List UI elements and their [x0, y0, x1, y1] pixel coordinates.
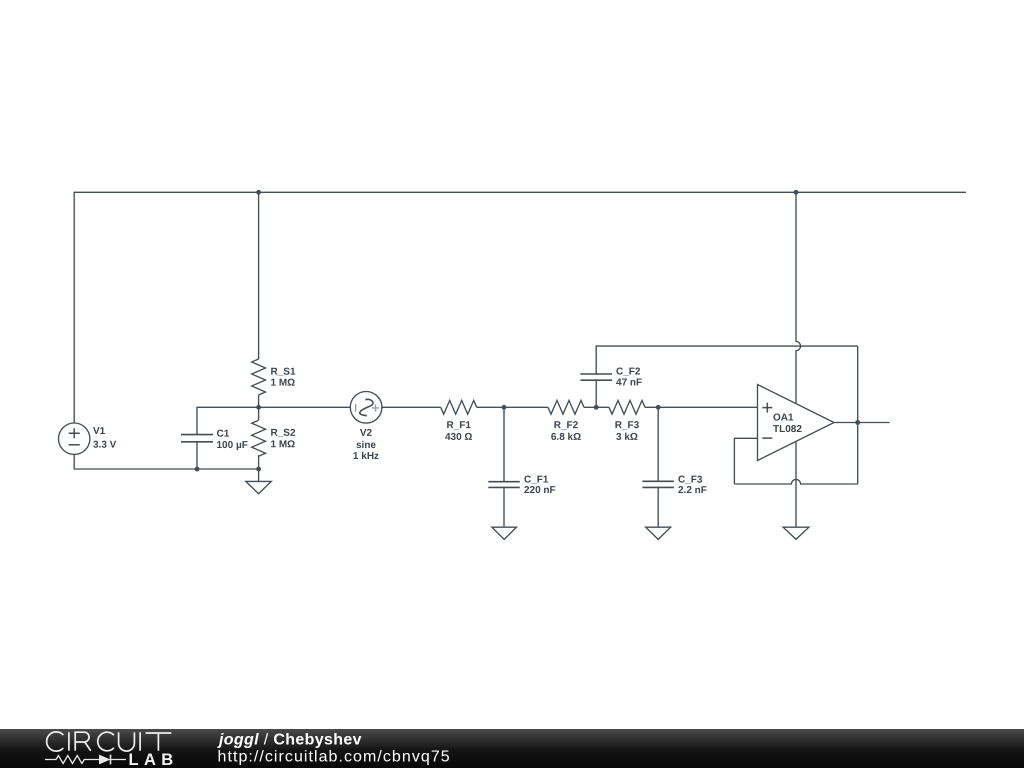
capacitor C_F1 — [488, 482, 520, 488]
wire feedback right vertical — [857, 346, 859, 484]
svg-text:3.3 V: 3.3 V — [93, 440, 117, 451]
capacitor C1 — [181, 435, 213, 442]
svg-text:joggl / Chebyshev: joggl / Chebyshev — [217, 732, 362, 749]
wire V2 to R_F1 — [382, 406, 441, 408]
wire R_F1 to C_F1 node — [477, 406, 548, 408]
V2 sine squiggle — [360, 399, 373, 415]
wire C1 top connector — [197, 407, 259, 434]
wire junction to V2 — [259, 406, 351, 408]
svg-text:TL082: TL082 — [773, 424, 802, 435]
node dot output — [855, 420, 860, 425]
wire output — [834, 422, 890, 424]
svg-text:1 MΩ: 1 MΩ — [270, 439, 295, 450]
op-amp plus input marker — [762, 403, 772, 413]
capacitor C_F2 — [580, 374, 612, 380]
svg-text:1 kHz: 1 kHz — [353, 451, 379, 462]
svg-text:430 Ω: 430 Ω — [445, 432, 472, 443]
voltage source V1 circle — [58, 423, 89, 454]
V1 plus sign — [69, 428, 80, 438]
svg-text:http://circuitlab.com/cbnvq75: http://circuitlab.com/cbnvq75 — [218, 748, 451, 765]
svg-text:OA1: OA1 — [773, 412, 794, 423]
svg-text:R_S2: R_S2 — [270, 428, 295, 439]
wire C_F2 lower lead — [595, 380, 597, 407]
V2 plus marker (gray) — [372, 404, 379, 411]
logo CIRCUIT text — [47, 732, 172, 751]
V2 minus marker (gray) — [355, 404, 357, 412]
resistor R_S1 — [252, 359, 266, 395]
op-amp minus input marker — [762, 437, 772, 439]
logo diode bar — [110, 755, 112, 765]
svg-text:3 kΩ: 3 kΩ — [616, 432, 638, 443]
ground for C_F3 — [646, 527, 671, 539]
svg-text:R_F3: R_F3 — [615, 420, 640, 431]
wire op-amp V- power — [795, 441, 797, 527]
wire feedback bottom with hop — [734, 479, 857, 484]
resistor R_F1 — [441, 400, 477, 414]
wire op-amp V+ power with hop — [796, 192, 801, 403]
resistor R_F2 — [548, 400, 584, 414]
wire C_F1 stem — [503, 487, 505, 527]
logo resistor-diode art — [45, 756, 126, 764]
svg-text:LAB: LAB — [129, 751, 179, 768]
node dot C_F3 — [656, 405, 661, 410]
node dot top rail / R_S1 — [256, 190, 261, 195]
V1 minus sign — [69, 444, 80, 446]
wire C1 bottom — [196, 442, 198, 469]
capacitor C_F3 — [642, 481, 674, 487]
wire C_F1 top lead — [503, 407, 505, 481]
wire R_F2 to C_F2 node — [584, 406, 609, 408]
node dot C1 bottom — [195, 467, 200, 472]
svg-text:47 nF: 47 nF — [616, 377, 642, 388]
svg-text:220 nF: 220 nF — [524, 485, 556, 496]
svg-text:C_F3: C_F3 — [678, 475, 703, 486]
node dot R_S2 bottom — [256, 467, 261, 472]
op-amp U1 triangle — [758, 385, 835, 461]
wire C_F2 upper lead and feedback top — [596, 346, 858, 374]
svg-text:C1: C1 — [216, 429, 229, 440]
voltage source V2 circle — [350, 392, 382, 424]
svg-text:R_S1: R_S1 — [271, 367, 296, 378]
wire op-amp negative input — [734, 438, 757, 484]
wire C_F3 top lead — [657, 407, 659, 481]
wire R_F3 to op-amp — [645, 406, 758, 408]
node dot C_F1 — [502, 405, 507, 410]
ground for op-amp — [783, 527, 809, 539]
ground for R_S2 — [246, 481, 271, 493]
svg-text:R_F1: R_F1 — [446, 420, 471, 431]
svg-text:sine: sine — [356, 440, 376, 451]
resistor R_F3 — [609, 400, 645, 414]
svg-text:V1: V1 — [93, 426, 106, 437]
svg-text:100 µF: 100 µF — [216, 440, 247, 451]
svg-text:6.8 kΩ: 6.8 kΩ — [551, 432, 581, 443]
wire V1 bottom to ground rail — [74, 454, 258, 469]
svg-text:C_F1: C_F1 — [524, 475, 549, 486]
node dot C_F2 — [594, 405, 599, 410]
wire top rail — [74, 192, 966, 423]
node dot R_S1/R_S2/main — [256, 405, 261, 410]
logo diode triangle — [99, 755, 111, 765]
svg-text:V2: V2 — [360, 428, 373, 439]
resistor R_S2 — [252, 420, 266, 456]
wire R_S1 to junction — [258, 395, 260, 407]
wire R_S1 branch top lead — [258, 192, 260, 359]
svg-text:R_F2: R_F2 — [554, 420, 579, 431]
node dot top rail / op-amp power — [794, 190, 799, 195]
wire R_S2 bottom — [258, 455, 260, 481]
wire C_F3 stem — [657, 487, 659, 527]
svg-text:C_F2: C_F2 — [616, 367, 641, 378]
svg-text:1 MΩ: 1 MΩ — [271, 378, 296, 389]
wire junction to R_S2 — [258, 407, 260, 420]
ground for C_F1 — [492, 527, 517, 539]
svg-text:2.2 nF: 2.2 nF — [678, 485, 707, 496]
